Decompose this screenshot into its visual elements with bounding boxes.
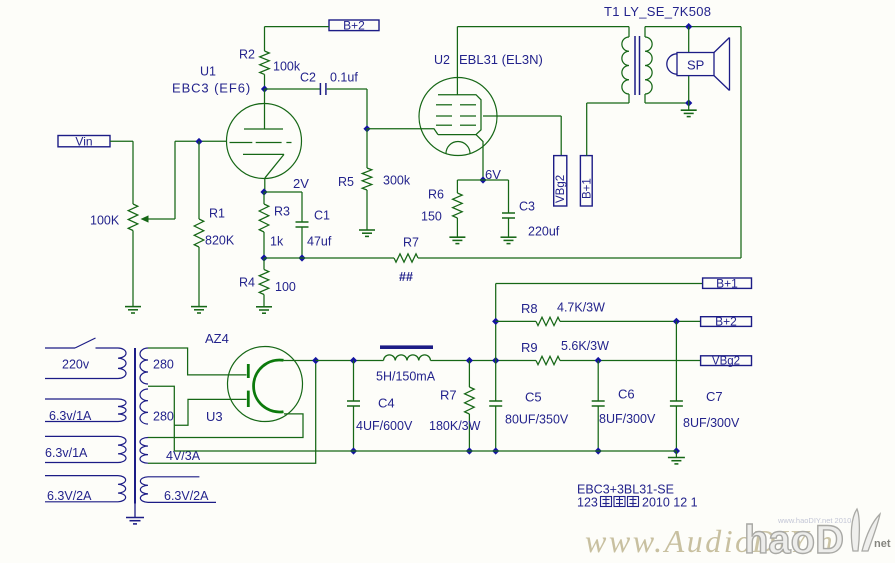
svg-text:EBL31 (EL3N): EBL31 (EL3N) [459, 52, 543, 67]
svg-text:R3: R3 [274, 205, 290, 219]
svg-text:##: ## [399, 270, 413, 284]
svg-text:net: net [874, 538, 891, 550]
svg-text:T1 LY_SE_7K508: T1 LY_SE_7K508 [604, 4, 711, 19]
svg-text:180K/3W: 180K/3W [429, 419, 481, 433]
svg-text:C3: C3 [519, 200, 535, 214]
svg-text:B+1: B+1 [582, 178, 594, 199]
svg-text:820K: 820K [205, 234, 235, 248]
svg-text:100K: 100K [90, 214, 120, 228]
svg-text:VBg2: VBg2 [555, 175, 567, 203]
svg-text:VBg2: VBg2 [712, 356, 740, 368]
svg-text:www.haoDIY.net 2010: www.haoDIY.net 2010 [777, 516, 851, 525]
svg-text:B+2: B+2 [715, 315, 737, 329]
svg-text:B+1: B+1 [716, 277, 738, 291]
svg-text:220v: 220v [62, 358, 90, 372]
svg-text:5.6K/3W: 5.6K/3W [561, 339, 609, 353]
svg-text:C4: C4 [378, 396, 395, 411]
svg-text:123: 123 [577, 496, 598, 510]
svg-text:C7: C7 [706, 389, 723, 404]
svg-text:R9: R9 [521, 340, 538, 355]
svg-text:C1: C1 [314, 209, 330, 223]
svg-text:280: 280 [153, 410, 174, 424]
svg-text:R6: R6 [428, 188, 444, 202]
svg-text:280: 280 [153, 358, 174, 372]
svg-text:R5: R5 [338, 175, 354, 189]
svg-text:6.3v/1A: 6.3v/1A [45, 446, 88, 460]
svg-text:8UF/300V: 8UF/300V [683, 416, 740, 430]
svg-text:4.7K/3W: 4.7K/3W [557, 301, 605, 315]
svg-text:2010 12 1: 2010 12 1 [642, 496, 698, 510]
svg-text:80UF/350V: 80UF/350V [505, 413, 569, 427]
svg-text:220uf: 220uf [528, 225, 560, 239]
svg-text:8UF/300V: 8UF/300V [599, 412, 656, 426]
svg-text:EBC3 (EF6): EBC3 (EF6) [172, 81, 251, 96]
svg-text:6.3v/1A: 6.3v/1A [49, 409, 92, 423]
svg-text:EBC3+3BL31-SE: EBC3+3BL31-SE [577, 483, 674, 497]
svg-text:C6: C6 [618, 387, 635, 402]
svg-text:R7: R7 [403, 236, 419, 250]
svg-text:R7: R7 [440, 388, 457, 403]
svg-text:B+2: B+2 [343, 19, 365, 33]
svg-text:R4: R4 [239, 276, 255, 290]
svg-text:R2: R2 [239, 48, 255, 62]
svg-text:R1: R1 [209, 207, 225, 221]
svg-text:U3: U3 [206, 409, 223, 424]
svg-text:5H/150mA: 5H/150mA [376, 370, 436, 384]
svg-text:1k: 1k [270, 235, 284, 249]
svg-text:4UF/600V: 4UF/600V [356, 419, 413, 433]
svg-text:0.1uf: 0.1uf [330, 71, 358, 85]
svg-text:R8: R8 [521, 301, 538, 316]
svg-text:www.Audio: www.Audio [585, 523, 754, 559]
svg-text:100k: 100k [273, 60, 301, 74]
svg-text:150: 150 [421, 210, 442, 224]
svg-text:2V: 2V [293, 176, 309, 191]
svg-text:SP: SP [687, 58, 704, 73]
svg-text:U2: U2 [434, 53, 450, 67]
svg-text:AZ4: AZ4 [205, 331, 229, 346]
svg-text:6.3V/2A: 6.3V/2A [164, 489, 209, 503]
svg-text:300k: 300k [383, 174, 411, 188]
svg-text:100: 100 [275, 280, 296, 294]
svg-text:6.3V/2A: 6.3V/2A [47, 489, 92, 503]
svg-text:U1: U1 [200, 65, 216, 79]
svg-text:C5: C5 [525, 390, 542, 405]
svg-text:Vin: Vin [75, 134, 92, 148]
svg-text:47uf: 47uf [307, 235, 332, 249]
svg-text:C2: C2 [300, 71, 316, 85]
